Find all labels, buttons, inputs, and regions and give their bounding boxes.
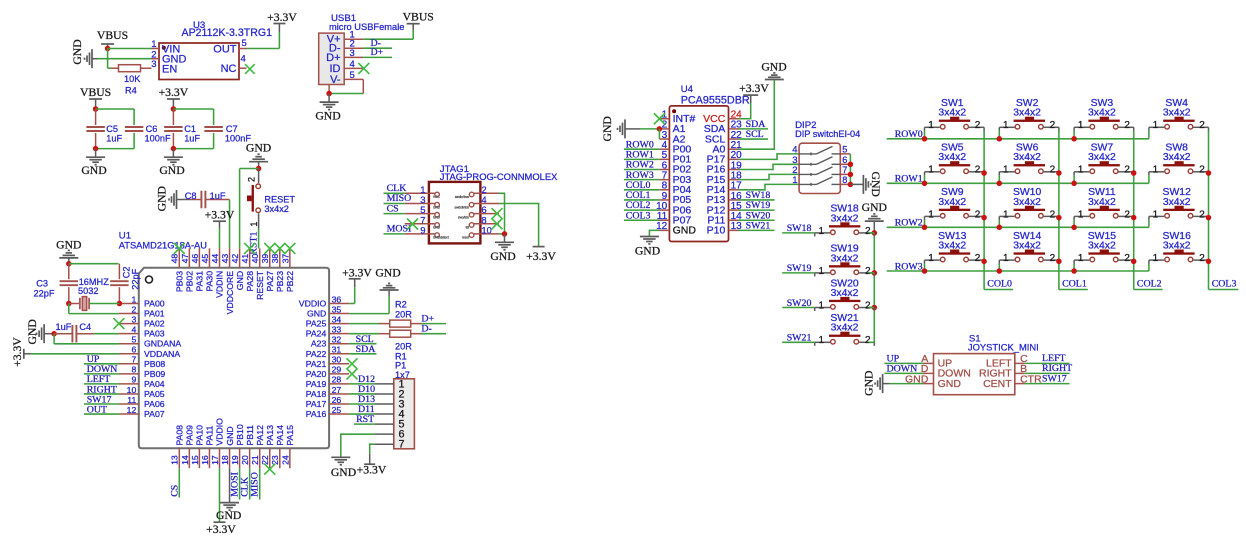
svg-text:3: 3 [151,59,156,70]
svg-text:GND: GND [761,61,786,74]
svg-text:2: 2 [1124,209,1130,220]
svg-text:1uF: 1uF [106,133,122,143]
svg-text:PA02: PA02 [144,319,165,329]
svg-text:RESET: RESET [255,270,265,300]
svg-text:+3.3V: +3.3V [159,86,189,99]
svg-text:3x4x2: 3x4x2 [1088,152,1116,163]
svg-text:GND: GND [159,164,184,177]
svg-text:4: 4 [482,195,487,205]
svg-text:22pF: 22pF [130,268,140,289]
svg-text:6: 6 [131,345,136,355]
svg-text:PA05: PA05 [144,389,165,399]
svg-text:+3.3V: +3.3V [342,266,372,279]
svg-text:2: 2 [1050,165,1056,176]
svg-text:PB08: PB08 [144,359,165,369]
svg-text:14: 14 [180,455,190,465]
svg-text:100nF: 100nF [145,133,171,143]
svg-text:AP2112K-3.3TRG1: AP2112K-3.3TRG1 [182,27,273,39]
svg-text:3x4x2: 3x4x2 [1163,241,1191,252]
svg-text:43: 43 [220,254,230,264]
svg-text:VDDIO: VDDIO [215,418,225,446]
svg-text:1: 1 [1003,120,1009,131]
svg-text:1: 1 [1078,120,1084,131]
svg-text:ROW1: ROW1 [895,174,923,185]
svg-text:COL3: COL3 [1212,278,1237,289]
svg-text:11: 11 [127,395,136,405]
svg-text:3x4x2: 3x4x2 [831,213,859,224]
svg-text:18: 18 [220,455,230,465]
svg-text:17: 17 [210,455,220,465]
svg-text:NC: NC [221,63,237,75]
svg-text:COL2: COL2 [1137,278,1162,289]
svg-text:36: 36 [332,294,342,304]
svg-text:4: 4 [131,324,136,334]
svg-text:SW18: SW18 [787,223,812,234]
svg-text:3x4x2: 3x4x2 [264,204,289,214]
svg-text:41: 41 [240,254,250,264]
svg-text:2: 2 [1199,165,1205,176]
svg-text:3: 3 [350,48,355,59]
svg-text:2: 2 [1050,120,1056,131]
svg-text:20R: 20R [395,309,412,319]
svg-text:1: 1 [1153,209,1159,220]
svg-text:GND: GND [216,509,241,522]
svg-text:GND: GND [863,371,876,396]
svg-text:1: 1 [792,175,797,186]
svg-text:24: 24 [280,455,290,465]
svg-text:PB10: PB10 [235,424,245,445]
svg-text:3x4x2: 3x4x2 [1163,152,1191,163]
svg-text:2: 2 [482,185,487,195]
svg-text:V-: V- [330,74,341,86]
svg-text:20R: 20R [395,341,412,351]
svg-text:PB11: PB11 [245,425,255,446]
svg-text:GND: GND [433,226,441,230]
svg-text:7: 7 [842,165,847,175]
svg-text:+3.3V: +3.3V [267,11,297,24]
svg-text:3x4x2: 3x4x2 [831,323,859,334]
svg-text:45: 45 [200,254,210,264]
svg-text:3x4x2: 3x4x2 [1013,152,1041,163]
svg-text:PA25: PA25 [306,319,327,329]
svg-text:22: 22 [260,455,270,465]
svg-text:38: 38 [270,254,280,264]
svg-text:33: 33 [332,324,342,334]
svg-text:5032: 5032 [78,286,98,296]
svg-text:GND: GND [71,39,84,64]
svg-text:20: 20 [240,455,250,465]
svg-text:3x4x2: 3x4x2 [1013,241,1041,252]
svg-text:2: 2 [1050,253,1056,264]
svg-text:R2: R2 [395,299,407,309]
svg-text:swdio/tms: swdio/tms [455,195,470,199]
svg-text:PB09: PB09 [144,369,165,379]
svg-text:10K: 10K [124,74,141,84]
svg-text:COL3: COL3 [626,210,651,221]
svg-text:1: 1 [1078,165,1084,176]
svg-text:7: 7 [131,355,136,365]
svg-text:GND: GND [315,109,340,122]
svg-text:1: 1 [1003,209,1009,220]
svg-text:1: 1 [928,253,934,264]
svg-text:16: 16 [200,455,210,465]
svg-text:42: 42 [230,254,240,264]
svg-text:GND: GND [56,238,81,251]
svg-text:1uF: 1uF [184,133,200,143]
svg-text:19: 19 [230,455,240,465]
svg-text:PB02: PB02 [185,271,195,292]
svg-text:1uF: 1uF [210,191,226,201]
svg-text:SW19: SW19 [787,263,812,274]
svg-text:2: 2 [865,335,871,346]
svg-text:C3: C3 [36,278,48,288]
svg-text:47: 47 [180,254,190,264]
svg-text:46: 46 [190,254,200,264]
svg-text:10: 10 [482,225,492,235]
svg-text:2: 2 [131,304,136,314]
svg-text:9: 9 [420,225,425,236]
svg-text:PA17: PA17 [306,399,327,409]
svg-text:PA11: PA11 [205,425,215,445]
svg-text:GNDdetect: GNDdetect [433,236,449,240]
svg-text:GND: GND [433,215,441,219]
svg-text:D+: D+ [371,47,384,58]
svg-text:GND: GND [601,116,614,141]
svg-text:PA28: PA28 [245,271,255,292]
svg-text:44: 44 [210,254,220,264]
svg-text:30: 30 [332,355,342,365]
svg-text:23: 23 [270,455,280,465]
svg-text:1: 1 [1078,253,1084,264]
svg-text:PA20: PA20 [306,369,327,379]
svg-text:1: 1 [1153,165,1159,176]
svg-text:+3.3V: +3.3V [11,337,24,367]
svg-text:SW21: SW21 [746,221,771,232]
svg-text:3x4x2: 3x4x2 [1088,197,1116,208]
svg-text:5: 5 [242,38,247,49]
svg-text:SDA: SDA [356,344,377,355]
svg-text:1: 1 [928,165,934,176]
svg-text:+3.3V: +3.3V [206,523,236,536]
svg-text:PA10: PA10 [195,425,205,446]
svg-text:1: 1 [928,209,934,220]
svg-text:+3.3V: +3.3V [739,82,769,95]
svg-text:3x4x2: 3x4x2 [938,152,966,163]
svg-text:26: 26 [332,395,342,405]
svg-text:2: 2 [1124,165,1130,176]
svg-text:1: 1 [818,226,824,237]
svg-text:2: 2 [975,209,981,220]
svg-text:swo/tdo: swo/tdo [458,215,469,219]
svg-text:22pF: 22pF [34,289,55,299]
svg-text:32: 32 [332,335,342,345]
svg-text:21: 21 [250,455,260,465]
svg-text:tdi: tdi [466,226,470,230]
svg-text:ROW2: ROW2 [895,218,923,229]
svg-text:GND: GND [331,466,356,479]
svg-text:3x4x2: 3x4x2 [1088,241,1116,252]
svg-text:PA01: PA01 [144,309,165,319]
svg-text:reset: reset [462,236,469,240]
svg-text:3x4x2: 3x4x2 [1163,108,1191,119]
svg-text:40: 40 [250,254,260,264]
svg-text:34: 34 [332,314,342,324]
svg-text:1: 1 [1153,120,1159,131]
svg-text:JTAG-PROG-CONNMOLEX: JTAG-PROG-CONNMOLEX [440,171,558,182]
svg-text:4: 4 [350,59,355,70]
svg-text:28: 28 [332,375,342,385]
svg-text:1: 1 [131,294,136,304]
svg-text:15: 15 [190,455,200,465]
svg-text:VDDIO: VDDIO [299,299,327,309]
svg-text:PA13: PA13 [265,425,275,446]
svg-text:37: 37 [280,254,290,264]
svg-text:PA04: PA04 [144,379,165,389]
svg-text:OUT: OUT [87,404,107,415]
svg-text:3x4x2: 3x4x2 [938,241,966,252]
svg-text:GND: GND [81,164,106,177]
svg-text:5: 5 [131,335,136,345]
svg-text:PA30: PA30 [205,271,215,292]
svg-text:8: 8 [131,365,136,375]
svg-text:SCL: SCL [746,129,764,140]
svg-text:PB22: PB22 [285,271,295,292]
svg-text:COL1: COL1 [1062,278,1087,289]
svg-text:6: 6 [482,205,487,215]
svg-text:micro USBFemale: micro USBFemale [329,22,404,32]
svg-text:2: 2 [1199,120,1205,131]
svg-text:EN: EN [162,63,177,75]
svg-text:8: 8 [482,215,487,225]
svg-text:GND: GND [235,271,245,290]
svg-text:8: 8 [842,175,847,185]
svg-text:2: 2 [865,300,871,311]
svg-text:4: 4 [241,53,246,64]
svg-text:DIP switchEI-04: DIP switchEI-04 [795,129,860,139]
svg-text:PA22: PA22 [306,349,327,359]
svg-text:2: 2 [1124,120,1130,131]
svg-text:1: 1 [818,335,824,346]
svg-text:ATSAMD21G18A-AU: ATSAMD21G18A-AU [119,241,207,251]
svg-text:3x4x2: 3x4x2 [1013,108,1041,119]
svg-text:1: 1 [1078,209,1084,220]
svg-text:5: 5 [350,70,355,81]
svg-text:PA07: PA07 [144,409,165,419]
svg-text:PA14: PA14 [275,425,285,446]
svg-text:GND: GND [635,245,660,258]
svg-text:1: 1 [818,266,824,277]
svg-text:RST: RST [356,414,374,425]
svg-text:2: 2 [1199,253,1205,264]
svg-text:GND: GND [433,205,441,209]
svg-text:2: 2 [975,253,981,264]
svg-text:VDDCORE: VDDCORE [225,271,235,315]
svg-text:35: 35 [332,304,342,314]
svg-text:CS: CS [170,485,181,497]
svg-text:+3.3V: +3.3V [357,463,387,476]
svg-text:GND: GND [246,142,271,155]
svg-text:C4: C4 [79,322,91,332]
svg-text:+3.3V: +3.3V [526,250,556,263]
svg-text:2: 2 [865,266,871,277]
svg-text:3x4x2: 3x4x2 [1013,197,1041,208]
svg-text:PB03: PB03 [175,271,185,292]
svg-text:3x4x2: 3x4x2 [831,253,859,264]
svg-text:GND: GND [155,186,168,211]
svg-text:PA18: PA18 [306,389,327,399]
svg-text:31: 31 [332,345,342,355]
svg-text:VDDANA: VDDANA [144,349,180,359]
svg-text:PA06: PA06 [144,399,165,409]
svg-text:GND: GND [869,172,882,197]
svg-text:+3.3V: +3.3V [205,208,235,221]
svg-text:9: 9 [131,375,136,385]
svg-text:JOYSTICK_MINI: JOYSTICK_MINI [968,341,1039,352]
svg-text:PCA9555DBR: PCA9555DBR [681,95,750,107]
svg-text:6: 6 [842,155,847,165]
svg-text:U4: U4 [681,84,694,95]
svg-text:5: 5 [842,144,847,154]
svg-text:VBUS: VBUS [80,86,111,99]
svg-text:PA19: PA19 [306,379,327,389]
svg-text:GND: GND [862,201,887,214]
svg-text:2: 2 [1199,209,1205,220]
svg-text:7: 7 [399,439,405,451]
svg-text:PA16: PA16 [306,409,327,419]
svg-text:2: 2 [246,177,256,182]
svg-text:GND: GND [375,266,400,279]
svg-text:1: 1 [249,222,259,227]
svg-text:PA00: PA00 [144,299,165,309]
svg-text:VBUS: VBUS [403,11,434,24]
svg-text:ROW0: ROW0 [895,129,923,140]
svg-text:13: 13 [170,455,180,465]
svg-text:RESET: RESET [264,195,295,205]
svg-text:27: 27 [332,385,342,395]
svg-text:48: 48 [170,254,180,264]
svg-text:2: 2 [1124,253,1130,264]
svg-text:39: 39 [260,254,270,264]
svg-text:C8: C8 [185,191,197,201]
svg-text:10: 10 [127,385,137,395]
svg-text:1: 1 [928,120,934,131]
svg-text:3x4x2: 3x4x2 [831,288,859,299]
svg-text:PA09: PA09 [185,425,195,446]
svg-text:PA21: PA21 [306,359,327,369]
svg-text:VCC: VCC [433,195,440,199]
svg-text:D-: D- [421,324,431,335]
svg-text:GND: GND [938,378,962,390]
svg-text:PA08: PA08 [175,425,185,446]
svg-text:1: 1 [1003,253,1009,264]
svg-text:3x4x2: 3x4x2 [1088,108,1116,119]
svg-text:OUT: OUT [213,43,237,55]
svg-text:SW21: SW21 [787,333,812,344]
svg-text:GND: GND [26,319,39,344]
svg-text:PB23: PB23 [275,271,285,292]
svg-text:COL0: COL0 [987,278,1012,289]
svg-text:A23: A23 [311,339,327,349]
svg-text:2: 2 [865,226,871,237]
svg-text:12: 12 [127,405,137,415]
svg-text:PA15: PA15 [285,425,295,446]
svg-text:R4: R4 [125,86,137,96]
svg-text:ROW3: ROW3 [895,261,923,272]
svg-text:3x4x2: 3x4x2 [938,197,966,208]
svg-text:2: 2 [1050,209,1056,220]
svg-text:swdclk/tck: swdclk/tck [454,205,469,209]
svg-text:GND: GND [307,309,326,319]
svg-text:CS: CS [387,203,399,214]
svg-text:1: 1 [1153,253,1159,264]
svg-text:SW17: SW17 [1042,373,1067,384]
svg-text:GND: GND [225,426,235,445]
svg-text:1: 1 [818,300,824,311]
svg-text:2: 2 [975,165,981,176]
svg-text:VDDIN: VDDIN [215,271,225,298]
svg-text:CENT: CENT [983,378,1012,390]
svg-text:PA31: PA31 [195,271,205,292]
svg-text:1: 1 [1003,165,1009,176]
svg-text:SW20: SW20 [787,298,812,309]
svg-text:PA03: PA03 [144,329,165,339]
svg-text:GND: GND [490,250,515,263]
svg-text:1uF: 1uF [56,322,72,332]
svg-text:PA12: PA12 [255,425,265,446]
svg-text:3: 3 [131,314,136,324]
svg-text:P10: P10 [707,225,726,237]
svg-text:25: 25 [332,405,342,415]
svg-text:3x4x2: 3x4x2 [1163,197,1191,208]
svg-text:3x4x2: 3x4x2 [938,108,966,119]
svg-text:4: 4 [792,144,797,155]
svg-text:2: 2 [975,120,981,131]
svg-text:VBUS: VBUS [97,29,128,42]
svg-text:29: 29 [332,365,342,375]
svg-text:MISO: MISO [250,472,261,497]
svg-text:GNDANA: GNDANA [144,339,181,349]
svg-text:PA27: PA27 [265,271,275,292]
svg-text:GND: GND [673,225,697,237]
svg-text:PA24: PA24 [306,329,327,339]
